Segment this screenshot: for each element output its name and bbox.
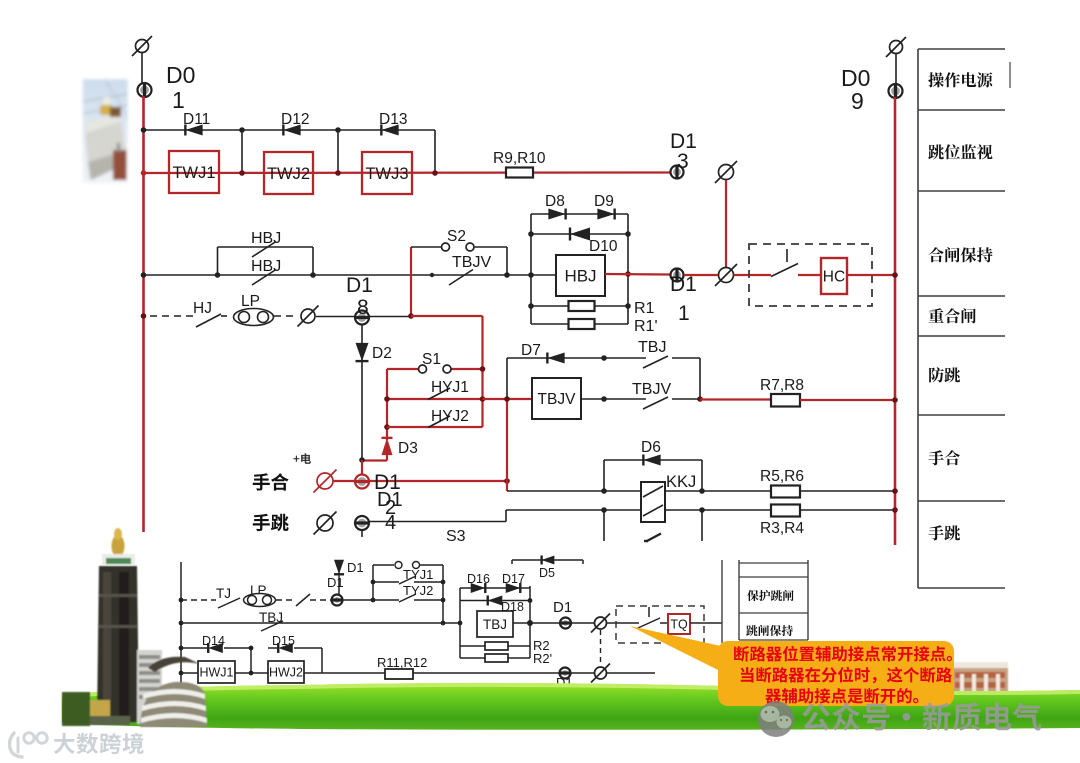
terminal D1 pin 5: [560, 668, 571, 679]
wire: [310, 599, 331, 601]
wire: [506, 481, 508, 491]
wire (red): [411, 315, 483, 317]
wire: [800, 509, 895, 511]
wire HBJ loop rails: [530, 214, 532, 324]
svg-text:TWJ2: TWJ2: [267, 165, 310, 183]
relay TWJ1: [169, 151, 219, 193]
junction: [179, 598, 184, 603]
wire D5 branch: [512, 559, 583, 561]
svg-text:TWJ1: TWJ1: [172, 164, 215, 182]
wire red riser to TBJV: [506, 399, 508, 481]
wire: [343, 599, 373, 601]
wire TJ row dashed: [181, 599, 216, 601]
svg-text:D8: D8: [545, 193, 565, 210]
label 防跳: [929, 367, 960, 382]
diode D2: [356, 343, 369, 361]
svg-text:R1': R1': [634, 318, 658, 335]
wire: [690, 622, 722, 624]
logo wechat icon: [758, 701, 794, 737]
contact TBJ: [643, 356, 668, 368]
svg-text:D7: D7: [521, 342, 541, 359]
wire (red): [361, 460, 363, 474]
junction: [527, 620, 533, 626]
wire (red): [800, 399, 895, 401]
svg-text:4: 4: [385, 512, 396, 534]
junction: [892, 397, 898, 403]
wire D18 row: [460, 600, 530, 602]
wire tick: [361, 530, 363, 537]
svg-text:D10: D10: [589, 238, 618, 255]
junction: [441, 598, 446, 603]
svg-text:3: 3: [677, 150, 689, 173]
junction: [141, 313, 147, 319]
label callout line2: [741, 667, 952, 684]
svg-text:D1: D1: [670, 273, 697, 296]
junction: [892, 272, 898, 278]
diode D17: [506, 583, 521, 593]
wire: [530, 622, 560, 624]
wire: [369, 316, 409, 318]
wire: [800, 490, 895, 492]
label 重合闸: [929, 308, 976, 323]
wire KKJ bottom row: [604, 509, 641, 511]
svg-text:TYJ2: TYJ2: [403, 583, 433, 598]
terminal D1 pin 4: [355, 516, 369, 530]
wire 手跳 row: [369, 521, 506, 523]
terminal D1 pin 8: [355, 311, 369, 325]
contact TBJ2: [261, 621, 283, 631]
wire R2 row: [460, 645, 530, 647]
relay TQ coil: [668, 614, 690, 634]
node slashed circle bottom: [591, 664, 610, 683]
diode D3 (red): [382, 438, 393, 455]
node slashed circle 手跳: [314, 512, 337, 535]
wire: [607, 672, 655, 674]
terminal D1 pin 1: [671, 269, 684, 282]
wire: [141, 53, 143, 83]
label 手跳: [928, 525, 960, 540]
wire TBJV contact row: [604, 398, 646, 400]
wire TYJ rails: [372, 565, 374, 600]
svg-text:D0: D0: [166, 62, 195, 88]
wire HBJ row: [144, 274, 532, 276]
label 大数跨境: [54, 733, 144, 754]
junction: [384, 396, 390, 402]
grass band: [62, 683, 1080, 730]
diode D16: [471, 583, 486, 593]
svg-text:D14: D14: [202, 634, 225, 648]
diode D6: [643, 455, 660, 466]
wire: [531, 274, 556, 276]
terminal D1 pin 2 (red): [355, 475, 369, 489]
contact TBJV on HBJ row: [449, 270, 473, 286]
wire: [581, 398, 604, 400]
resistor R2: [485, 642, 508, 650]
diode D13: [381, 125, 398, 136]
label 保护跳闸: [747, 590, 793, 601]
svg-text:R7,R8: R7,R8: [760, 377, 804, 394]
wire: [571, 622, 594, 624]
wire R1p row: [531, 323, 628, 325]
diode D15: [278, 643, 293, 653]
wire: [734, 274, 772, 276]
relay TWJ2: [264, 152, 313, 194]
photo building right: [700, 662, 1008, 712]
label +电: [293, 453, 311, 464]
wire TYJ1 row: [373, 581, 399, 583]
svg-text:TBJV: TBJV: [452, 254, 491, 271]
junction: [141, 170, 147, 176]
diode D5: [542, 556, 555, 565]
contact breaker aux (TQ): [648, 607, 650, 617]
label 手合: [253, 473, 289, 490]
svg-text:HBJ: HBJ: [251, 258, 281, 275]
svg-text:TBJV: TBJV: [538, 391, 577, 408]
callout bubble: [630, 626, 954, 706]
label 手跳: [253, 514, 289, 532]
fuse LP: [234, 309, 274, 326]
junction: [528, 303, 534, 309]
wire: [571, 672, 594, 674]
wire S1 row (red): [387, 368, 418, 370]
svg-text:D12: D12: [281, 111, 309, 128]
svg-text:D1: D1: [346, 274, 373, 297]
contact S1 circles: [419, 365, 452, 373]
resistor R2': [485, 654, 508, 662]
diode D8: [548, 209, 565, 220]
wire KKJ top row: [507, 490, 641, 492]
junction: [601, 355, 607, 361]
wire red drop: [725, 180, 727, 267]
wire: [684, 274, 718, 276]
wire TBJ row: [181, 622, 460, 624]
svg-text:S2: S2: [447, 228, 466, 245]
svg-text:HBJ: HBJ: [251, 230, 281, 247]
contact TJ: [218, 598, 240, 608]
wire (red): [333, 480, 355, 482]
dashed box TQ: [616, 606, 704, 643]
junction: [528, 231, 534, 237]
contact HJ: [196, 314, 221, 327]
svg-text:D2: D2: [372, 345, 392, 362]
table bottom frame: [722, 560, 808, 643]
svg-text:D11: D11: [183, 111, 210, 128]
svg-text:D9: D9: [594, 193, 614, 210]
svg-text:1: 1: [172, 87, 185, 113]
relay KKJ coil: [641, 482, 665, 522]
svg-text:TBJV: TBJV: [632, 381, 671, 398]
diode D18: [488, 596, 503, 606]
relay TBJV coil: [532, 378, 581, 419]
svg-text:8: 8: [357, 296, 369, 319]
terminal D0 pin 9: [889, 84, 903, 98]
wire TWJ row (red): [144, 171, 673, 174]
wire D11 row: [144, 129, 436, 131]
svg-text:HWJ2: HWJ2: [269, 666, 303, 680]
junction: [892, 488, 898, 494]
wire: [616, 622, 639, 624]
svg-text:S3: S3: [446, 528, 466, 545]
wire D10 row: [531, 233, 628, 235]
contact TYJ1: [399, 576, 416, 584]
wire left red bus: [142, 96, 145, 532]
wire dashed link: [600, 630, 602, 666]
logo dashukuajing icon: [10, 733, 48, 757]
node slashed circle HJ row: [298, 306, 319, 327]
photo of line worker (decorative corner image): [78, 74, 133, 188]
relay HWJ1: [198, 661, 235, 683]
wire: [338, 572, 340, 594]
wire HYJ1 row (red): [387, 398, 483, 400]
svg-text:R5,R6: R5,R6: [760, 468, 804, 485]
resistor R11,R12: [385, 669, 413, 679]
junction: [601, 488, 607, 494]
svg-text:S1: S1: [422, 351, 441, 368]
svg-text:D17: D17: [502, 572, 525, 586]
svg-text:9: 9: [851, 88, 864, 114]
wire: [847, 274, 895, 276]
contact TBJV: [643, 397, 668, 409]
wire D6 bypass: [603, 460, 605, 491]
contact S1 button S2 circles: [442, 243, 475, 251]
contact circles: [395, 562, 420, 569]
dashed box breaker aux contact: [749, 244, 872, 306]
junction: [371, 580, 376, 585]
svg-text:HYJ1: HYJ1: [431, 379, 469, 396]
svg-text:D1: D1: [553, 599, 572, 616]
diode D11: [185, 125, 202, 136]
junction: [458, 621, 463, 626]
wire: [241, 130, 243, 173]
label callout line3: [765, 688, 918, 704]
wire: [607, 622, 616, 624]
relay HWJ2: [268, 661, 304, 683]
svg-text:R3,R4: R3,R4: [760, 520, 804, 537]
contact breaker aux (in dashed box): [786, 249, 788, 262]
svg-text:HYJ2: HYJ2: [431, 408, 469, 425]
label 合闸保持: [929, 247, 993, 262]
svg-text:HBJ: HBJ: [564, 267, 596, 286]
contact HYJ1: [428, 388, 450, 400]
wire: [316, 316, 355, 318]
wire D7 row: [507, 357, 604, 359]
terminal D1 pin 6: [332, 595, 343, 606]
label 手合: [928, 450, 960, 465]
wire: [250, 648, 252, 673]
wire: [413, 672, 560, 674]
node D0:1 terminal (top-left slashed circle): [132, 36, 152, 56]
svg-text:D5: D5: [539, 566, 555, 580]
wire S2 branch rail (red): [410, 247, 412, 316]
svg-text:HJ: HJ: [193, 300, 212, 317]
contact KKJ (below coil): [644, 540, 648, 542]
wire: [665, 490, 702, 492]
diode D1 (bottom, down): [334, 560, 344, 575]
junction: [601, 396, 607, 402]
wire 手合 row (red): [369, 480, 507, 482]
wire R2p row: [460, 657, 530, 659]
svg-text:D3: D3: [398, 440, 418, 457]
contact slash mark: [296, 594, 310, 606]
node slashed circle top: [715, 161, 737, 183]
wire R1 row: [531, 305, 628, 307]
node slashed circle mid: [715, 264, 737, 286]
wire: [699, 358, 701, 399]
svg-text:TBJ: TBJ: [638, 339, 666, 356]
wire TBJ contact row: [604, 357, 646, 359]
svg-text:D13: D13: [379, 111, 407, 128]
svg-text:R1: R1: [634, 300, 655, 317]
svg-text:D1: D1: [347, 560, 364, 575]
svg-text:R9,R10: R9,R10: [493, 150, 546, 167]
terminal D1 pin 3: [671, 166, 684, 179]
label 操作电源: [928, 72, 992, 87]
wire: [660, 622, 668, 624]
table function column frame: [918, 49, 1010, 588]
wire: [274, 315, 298, 317]
svg-text:1: 1: [678, 302, 690, 325]
svg-text:TQ: TQ: [670, 618, 688, 632]
wire: [276, 599, 293, 601]
svg-text:D15: D15: [272, 634, 295, 648]
contact HBJ lower: [252, 270, 276, 286]
junction: [408, 313, 414, 319]
relay HC coil: [821, 258, 847, 294]
svg-text:LP: LP: [241, 293, 260, 310]
svg-text:D1: D1: [327, 575, 344, 590]
node slashed circle 手合 (red): [314, 470, 337, 493]
wire TYJ2 row: [373, 599, 399, 601]
resistor R9,R10: [506, 168, 533, 178]
junction: [371, 598, 376, 603]
wire TBJV feed (red): [483, 398, 533, 400]
wire D8 D9 row: [531, 213, 628, 215]
wire: [895, 54, 897, 84]
junction: [249, 646, 254, 651]
svg-text:TJ: TJ: [216, 586, 231, 601]
junction: [504, 396, 510, 402]
relay TBJ coil: [477, 611, 513, 637]
junction: [504, 478, 510, 484]
wire KKJ contact stubs: [603, 511, 605, 541]
svg-text:R2': R2': [533, 651, 552, 666]
diode D7: [547, 353, 564, 364]
wire (red): [700, 398, 771, 400]
label 公众号新质电气: [802, 702, 1041, 730]
node slashed circle (TQ row): [591, 614, 610, 633]
wire D7 stub: [506, 358, 508, 399]
node D0:9 terminal (top-right slashed circle): [886, 37, 906, 57]
wire HWJ row: [181, 672, 198, 674]
junction: [528, 598, 533, 603]
svg-text:D6: D6: [641, 439, 661, 456]
wire (red): [386, 452, 388, 461]
wire HBJ out (red): [605, 273, 670, 276]
label 跳位监视: [928, 144, 992, 159]
wire bottom left bus: [180, 562, 182, 687]
wire HYJ2 row (red): [387, 426, 483, 428]
wire S2 branch: [411, 246, 441, 248]
resistor R7,R8: [771, 394, 800, 407]
wire D2 branch: [361, 324, 363, 460]
wire D16 loop rails: [459, 588, 461, 658]
contact TYJ2: [399, 594, 416, 602]
wire D14 row: [181, 647, 207, 649]
terminal D0 pin 1: [138, 83, 152, 97]
wire right red bus: [894, 97, 897, 545]
junction: [359, 457, 365, 463]
diode D14: [208, 643, 223, 653]
junction: [141, 127, 147, 133]
svg-text:R11,R12: R11,R12: [377, 655, 427, 670]
fuse LP (bottom): [244, 594, 276, 607]
svg-text:TWJ3: TWJ3: [365, 165, 408, 183]
svg-text:KKJ: KKJ: [666, 473, 696, 491]
diode D9: [597, 209, 614, 220]
junction: [141, 272, 147, 278]
wire: [513, 622, 530, 624]
label 跳闸保持: [746, 625, 793, 636]
wire HYJ right rail (red): [481, 316, 483, 427]
svg-text:D16: D16: [467, 572, 490, 586]
wire HYJ left rail (red): [386, 369, 388, 440]
svg-text:TBJ: TBJ: [483, 617, 507, 632]
resistor R1': [569, 319, 595, 329]
wire HJ dashed: [150, 315, 194, 317]
resistor R3,R4: [771, 505, 800, 517]
resistor R1: [569, 301, 595, 311]
diode D12: [283, 125, 300, 136]
wire D16 row: [460, 587, 530, 589]
terminal D1 pin 7: [560, 618, 571, 629]
svg-text:HWJ1: HWJ1: [199, 666, 233, 680]
photo buildings left: [62, 528, 207, 727]
junction: [892, 507, 898, 513]
wire HBJ bypass: [217, 247, 219, 275]
wire: [798, 274, 821, 276]
resistor R5,R6: [771, 486, 800, 498]
relay TWJ3: [362, 152, 412, 194]
label callout line1: [734, 646, 952, 662]
diode D10: [570, 228, 590, 241]
relay HBJ: [556, 255, 605, 296]
contact HYJ2: [428, 416, 450, 428]
wire TYJ top branch: [373, 564, 394, 566]
svg-text:HC: HC: [823, 269, 845, 286]
contact HBJ upper: [252, 242, 276, 258]
photo faint skyline: [215, 690, 685, 708]
